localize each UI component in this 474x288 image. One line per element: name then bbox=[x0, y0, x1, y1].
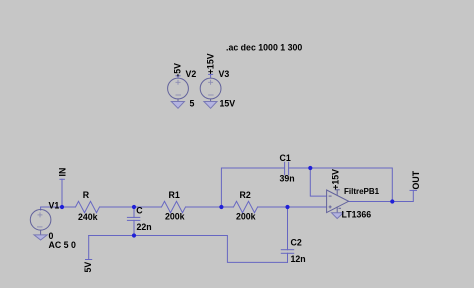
svg-text:V3: V3 bbox=[219, 69, 230, 79]
svg-text:R: R bbox=[83, 190, 90, 200]
svg-text:C1: C1 bbox=[280, 153, 291, 163]
svg-text:C2: C2 bbox=[291, 238, 302, 248]
svg-text:FiltrePB1: FiltrePB1 bbox=[344, 187, 380, 196]
svg-text:V1: V1 bbox=[49, 200, 60, 210]
svg-text:LT1366: LT1366 bbox=[342, 210, 372, 220]
svg-text:+15V: +15V bbox=[206, 53, 216, 74]
svg-text:22n: 22n bbox=[137, 222, 152, 232]
svg-text:AC 5 0: AC 5 0 bbox=[49, 240, 76, 250]
svg-text:12n: 12n bbox=[291, 254, 306, 264]
svg-text:200k: 200k bbox=[236, 212, 256, 222]
svg-text:+15V: +15V bbox=[331, 169, 341, 190]
svg-text:C: C bbox=[136, 205, 143, 215]
svg-text:5V: 5V bbox=[83, 262, 93, 273]
svg-text:240k: 240k bbox=[78, 212, 98, 222]
svg-text:-5V: -5V bbox=[173, 63, 183, 77]
svg-text:V2: V2 bbox=[186, 69, 197, 79]
svg-text:OUT: OUT bbox=[411, 170, 421, 189]
svg-text:15V: 15V bbox=[220, 98, 236, 108]
svg-text:R1: R1 bbox=[169, 190, 180, 200]
svg-text:IN: IN bbox=[58, 168, 68, 177]
svg-text:5: 5 bbox=[190, 98, 195, 108]
svg-text:39n: 39n bbox=[280, 174, 295, 184]
svg-text:R2: R2 bbox=[240, 190, 251, 200]
svg-text:.ac dec 1000 1 300: .ac dec 1000 1 300 bbox=[226, 43, 302, 53]
svg-text:200k: 200k bbox=[165, 212, 185, 222]
